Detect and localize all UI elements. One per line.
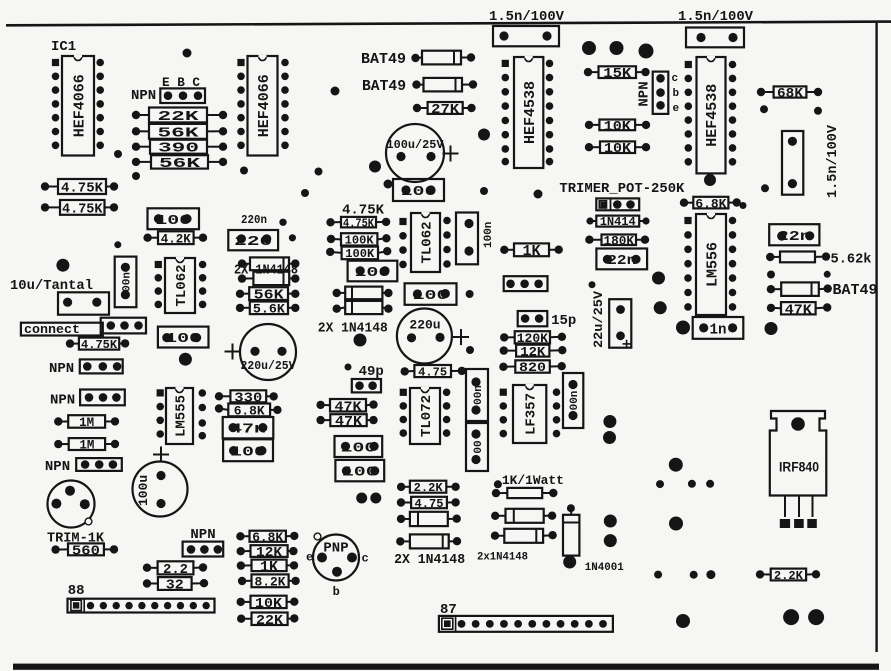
capacitor 22u/25V [609,299,631,348]
svg-text:5.6K: 5.6K [253,301,285,316]
svg-text:820: 820 [519,360,546,375]
pin label c PNP [362,552,369,566]
svg-text:e: e [306,551,313,565]
label 1.5n/100V C3 vertical [825,124,841,198]
label E B C [162,76,200,90]
via [669,517,683,531]
resistor 1K/1Watt [492,488,558,498]
IC TL072 [400,388,451,444]
pin label e PNP [306,551,313,565]
svg-text:1.5n/100V: 1.5n/100V [489,9,565,25]
IC HEF4066 second [237,56,289,156]
label BAT49 D2 [362,78,406,95]
via [345,364,352,371]
svg-text:HEF4538: HEF4538 [522,81,539,144]
diode 1N4148 pair-D second [491,529,557,543]
svg-text:1n: 1n [710,321,727,338]
via [114,241,121,248]
resistor 4.75K second [41,200,118,217]
svg-text:HEF4066: HEF4066 [256,74,273,137]
connector connect label [21,323,103,338]
svg-text:connect: connect [24,323,80,337]
capacitor 100n mid4 [335,436,383,457]
trimmer pot 250K pads [596,198,639,210]
via [706,570,715,579]
capacitor 100n vertical C [563,373,583,428]
svg-text:32: 32 [166,578,184,594]
resistor 330 [215,390,278,406]
via [534,190,543,199]
svg-text:HEF4538: HEF4538 [704,84,721,147]
svg-text:2x1N4148: 2x1N4148 [477,552,528,564]
capacitor C3 1.5n/100V vertical [782,131,803,195]
via [706,480,714,488]
svg-text:TL062: TL062 [174,264,190,306]
resistor 1M [54,415,119,430]
resistor 12K bottom [237,545,298,561]
label 220n [241,213,267,227]
resistor 2.2 [143,561,207,578]
via [114,150,122,158]
resistor 32 [143,577,208,593]
label 2X 1N4148 pair-A [234,263,298,279]
svg-text:LM556: LM556 [704,242,721,287]
resistor 4.75 mid [397,497,460,511]
svg-text:2.2: 2.2 [163,562,188,578]
svg-text:BAT49: BAT49 [833,282,878,299]
label IC1 [51,39,76,55]
resistor 180K [585,233,649,248]
resistor 5.6K [236,301,300,316]
label 1.5n/100V C2 [678,9,754,25]
pin label b PNP [333,585,340,599]
svg-text:c: c [672,73,679,85]
capacitor 100n left-column [223,439,273,461]
svg-text:1K: 1K [260,559,278,576]
diode 1N4001 vertical [563,504,579,568]
via [315,168,323,176]
via [179,353,192,366]
svg-text:10K: 10K [604,141,632,157]
label NPN Q5 [45,459,70,475]
via [824,271,831,278]
svg-text:00: 00 [473,440,485,453]
diode 1N4148 pair-B second [333,301,393,314]
svg-text:1M: 1M [79,438,94,453]
svg-text:c: c [362,552,369,566]
via [765,322,778,335]
resistor 1M second [54,438,119,453]
transistor Q2 NPN vertical [653,72,669,114]
resistor 4.75K fourth [401,365,466,379]
label 49p [359,364,384,380]
trimmer TRIM-1K [48,481,95,528]
svg-text:LF357: LF357 [524,393,540,435]
svg-text:220n: 220n [241,213,267,227]
resistor 56K third [236,287,300,303]
resistor 390 [132,140,227,157]
via [603,431,616,444]
svg-text:22u/25V: 22u/25V [591,291,606,348]
pin label b [673,88,680,100]
capacitor 220n [228,230,278,250]
diode 1N4148 pair-C first [397,512,461,526]
diode D1 BAT49 [411,51,475,65]
svg-text:TL062: TL062 [419,221,435,263]
svg-text:5.62k: 5.62k [831,252,872,268]
svg-text:560: 560 [72,543,100,559]
capacitor 220u/25V electrolytic [225,324,297,380]
via [808,609,824,625]
resistor 6.8K [215,404,282,419]
diode 1N4148 pair-C second [396,534,461,548]
via [279,219,286,226]
transistor Q4 NPN [80,390,125,406]
resistor 120K [500,331,566,346]
transistor NPN unlabeled [504,276,548,291]
resistor 560 [51,543,118,559]
svg-text:100u: 100u [136,475,151,506]
label NPN Q2 vertical [637,81,653,106]
svg-text:47K: 47K [335,399,363,415]
svg-text:1.5n/100V: 1.5n/100V [825,124,841,198]
svg-text:56K: 56K [159,156,201,172]
via [767,271,775,279]
IC HEF4538 [502,57,554,168]
resistor 22K [132,108,227,125]
svg-text:6.8K: 6.8K [695,196,726,211]
via [656,480,664,488]
via [289,234,296,241]
label NPN Q6 [190,527,215,543]
via [604,515,617,528]
via [466,290,474,298]
svg-text:8.2K: 8.2K [255,574,286,589]
label 88 [68,583,85,599]
resistor 6.8K bottom [236,530,298,545]
capacitor 220u electrolytic [397,309,469,364]
via [301,189,309,197]
capacitor 22n second [769,224,819,245]
via [240,167,248,175]
label 1K/1Watt [502,473,564,488]
svg-text:TL072: TL072 [419,395,435,437]
svg-text:4.75K: 4.75K [81,338,118,352]
resistor 56K second [132,155,227,172]
IC TL062 second [399,213,451,272]
svg-text:6.8K: 6.8K [252,530,283,545]
svg-text:2.2K: 2.2K [414,481,444,495]
svg-text:4.75K: 4.75K [62,201,103,217]
svg-text:10K: 10K [255,596,283,612]
capacitor 100n below 100u [393,179,444,201]
svg-text:HEF4066: HEF4066 [71,74,88,137]
resistor 47K third [767,302,832,318]
svg-text:2.2K: 2.2K [774,569,804,583]
capacitor 47n [223,417,274,438]
svg-text:NPN: NPN [49,361,74,377]
label TRIM-1K [47,531,105,547]
capacitor 100n vertical left [115,257,137,308]
svg-text:1K: 1K [523,243,541,260]
resistor 4.75K third [66,338,130,352]
via [604,534,617,547]
label NPN Q3 [49,361,74,377]
resistor 5.62k [766,252,830,263]
svg-text:NPN: NPN [637,81,653,106]
resistor 10K bottom [237,596,299,612]
label NPN Q4 [50,392,75,408]
board right border line [875,23,877,652]
svg-text:IC1: IC1 [51,39,76,55]
resistor 4.75K [41,179,118,197]
svg-text:15K: 15K [603,66,632,82]
resistor 100K second [326,247,391,262]
svg-text:22K: 22K [158,109,200,125]
diode 1N4148 pair-A first [238,257,300,270]
capacitor 49p [352,379,381,392]
svg-text:47K: 47K [335,414,363,430]
via [603,415,616,428]
via [384,180,393,189]
resistor 27K [413,102,476,118]
label 1.5n/100V C1 [489,9,565,25]
diode D2 BAT49 [412,78,477,92]
svg-text:IRF840: IRF840 [779,460,819,475]
diode 1N4148 pair-A second [238,272,300,285]
IC LM555 [156,388,206,444]
capacitor 100n vertical A [466,369,488,421]
via [466,346,474,354]
svg-text:12K: 12K [520,344,545,359]
svg-text:1K/1Watt: 1K/1Watt [502,473,564,488]
resistor 100K [327,233,391,247]
resistor 6.8K top-right [680,196,741,211]
capacitor 100u/25V electrolytic [386,124,459,182]
svg-text:NPN: NPN [45,459,70,475]
via [761,184,769,192]
label 4.75K mid [342,203,385,219]
svg-text:100u/25V: 100u/25V [387,138,445,152]
capacitor 100n vertical G [456,213,478,265]
svg-text:1M: 1M [79,415,94,430]
svg-text:2X 1N4148: 2X 1N4148 [318,321,388,337]
resistor 47K second [316,414,377,430]
resistor 10K second [585,141,650,157]
capacitor 100n below TL062 second [405,283,457,305]
via [690,571,698,579]
svg-text:4.2K: 4.2K [161,231,191,246]
via [183,49,192,58]
label 5.62k [831,252,872,268]
capacitor 100n below TL062 [158,327,209,348]
svg-text:PNP: PNP [323,541,348,557]
resistor 1K bottom [237,559,298,576]
label TRIMER_POT-250K [559,181,685,197]
label 1N4001 [585,562,624,574]
IC U1 HEF4066 [52,56,104,156]
transistor PNP [313,533,359,580]
resistor 12K [500,344,567,359]
pin label e [673,103,680,115]
via [494,480,502,488]
svg-text:00n: 00n [473,385,485,405]
via [669,458,683,472]
capacitor C1 1.5n/100V [493,26,559,46]
svg-text:15p: 15p [551,313,576,329]
svg-text:1.5n/100V: 1.5n/100V [678,9,754,25]
svg-text:88: 88 [68,583,85,599]
svg-text:b: b [673,88,680,100]
via [354,334,367,347]
transistor Q6 NPN [183,542,224,557]
svg-text:68K: 68K [777,86,804,102]
via [369,161,381,173]
svg-text:180K: 180K [604,233,635,248]
resistor 2.2K bottom [756,569,820,583]
via [704,174,716,186]
pin label c [672,73,679,85]
resistor 2.2K mid [397,481,460,495]
svg-text:BAT49: BAT49 [361,51,406,68]
via [676,321,690,335]
label 2X 1N4148 pair-B [318,321,388,337]
svg-text:LM555: LM555 [173,395,189,437]
resistor 1K [500,243,563,260]
via [132,172,140,180]
svg-text:00n: 00n [569,391,581,411]
via [589,281,596,288]
IC LF357 [500,385,561,443]
resistor 4.75K mid [326,216,390,230]
via [56,259,69,272]
via [582,41,596,55]
svg-text:b: b [333,585,340,599]
IC HEF4538 second [685,57,737,173]
transistor Q5 NPN [76,458,122,471]
svg-text:e: e [673,103,680,115]
svg-text:1N414: 1N414 [600,215,636,229]
svg-text:NPN: NPN [50,392,75,408]
label 22u/25V vertical [591,291,606,348]
svg-text:22K: 22K [256,613,284,629]
IC LM556 [684,214,736,315]
transistor Q3 NPN [80,359,123,373]
svg-text:220u/25V: 220u/25V [241,359,297,373]
transistor Q1 NPN [160,88,205,103]
via [654,571,662,579]
diode 1N4148 pair-D first [491,509,556,523]
svg-text:4.75K: 4.75K [61,181,104,197]
via [331,87,340,96]
capacitor 22n [596,249,647,270]
svg-text:2X 1N4148: 2X 1N4148 [234,263,298,279]
resistor 10K [585,119,650,135]
capacitor 100u electrolytic [133,447,188,517]
svg-text:00n: 00n [122,272,134,292]
MOSFET IRF840 [770,411,827,528]
svg-text:100K: 100K [345,247,375,261]
via [654,301,667,314]
label 10u/Tantal [10,278,93,294]
resistor 4.2K [143,231,207,246]
via [676,614,690,628]
via [688,480,696,488]
svg-text:100n: 100n [483,222,495,248]
svg-text:49p: 49p [359,364,384,380]
svg-text:10K: 10K [604,119,632,135]
svg-text:4.75K: 4.75K [343,216,375,230]
via [370,493,381,504]
label BAT49 third [833,282,878,299]
via [740,202,747,209]
resistor 56K [132,124,227,141]
resistor 820 [499,360,566,375]
connector connect pads [101,318,146,334]
IC TL062 [155,258,207,313]
capacitor 100n mid5 [335,460,384,481]
label 87 [440,602,457,618]
via [814,107,822,115]
label 2X 1N4148 pair-C [394,552,465,568]
svg-text:4.75: 4.75 [418,365,447,379]
via [652,272,665,285]
label 2x1N4148 pair-D [477,552,528,564]
capacitor 100n center [348,261,398,282]
capacitor 15p [518,311,548,326]
resistor 68K [757,86,822,102]
board top border line [6,22,891,26]
svg-text:TRIMER_POT-250K: TRIMER_POT-250K [559,181,685,197]
via [480,187,488,195]
resistor 15K [584,66,650,82]
via [760,105,768,113]
capacitor 100n mid-left [148,208,200,229]
svg-text:27K: 27K [431,102,460,118]
label 100n vertical G [483,222,495,248]
svg-text:47K: 47K [785,302,813,318]
svg-text:BAT49: BAT49 [362,78,406,95]
resistor 22K bottom [237,613,298,629]
diode BAT49 third [767,282,832,296]
board bottom border line [13,664,879,670]
svg-text:NPN: NPN [131,88,156,104]
diode 1N4148 at trimmer [586,215,649,229]
via [639,44,654,59]
via [610,41,624,55]
capacitor 1n [693,317,744,339]
resistor 47K [316,399,377,415]
svg-text:1N4001: 1N4001 [585,562,624,574]
label 15p [551,313,576,329]
resistor 8.2K [238,574,300,589]
label BAT49 D1 [361,51,406,68]
via [478,129,490,141]
capacitor C2 1.5n/100V [686,28,744,48]
connector header 88 [68,599,215,613]
capacitor 10u Tantal [58,292,109,314]
diode 1N4148 pair-B first [333,287,393,300]
capacitor 100n vertical B [466,423,488,471]
connector header 87 [439,616,613,632]
svg-text:220u: 220u [409,318,440,333]
via [356,493,367,504]
svg-text:2X 1N4148: 2X 1N4148 [394,552,465,568]
svg-text:4.75: 4.75 [415,497,444,511]
label NPN Q1 [131,88,156,104]
via [783,609,799,625]
